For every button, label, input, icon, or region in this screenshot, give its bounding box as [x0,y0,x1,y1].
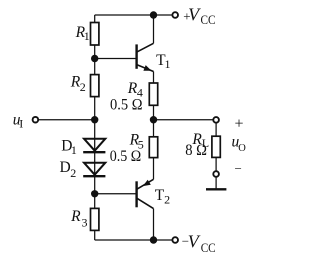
svg-text:1: 1 [84,29,90,43]
wire output node to output terminal [154,119,214,121]
svg-text:O: O [238,143,246,154]
svg-text:2: 2 [80,80,86,94]
node input [91,116,98,123]
svg-text:CC: CC [201,13,216,27]
wire top rail from R1 top to +VCC terminal [95,14,173,16]
wire RL bottom to output- terminal [215,157,217,171]
transistor T2 [137,179,154,208]
terminal output + [213,117,219,123]
wire T2 collector to bottom rail [153,209,155,240]
diode D1 [83,139,105,153]
resistor R4 [149,83,157,105]
resistor R2 [91,75,99,97]
wire R2 bottom through diodes D1 D2 to R3 top [94,97,96,209]
wire output+ terminal to RL top [215,122,217,136]
wire T1 emitter to R4 [153,72,155,84]
terminal output - [213,171,219,177]
node junction top rail [150,11,157,18]
svg-text:3: 3 [82,215,88,229]
wire node A to T1 base [95,58,136,60]
svg-text:1: 1 [165,57,171,71]
svg-text:1: 1 [71,143,77,157]
terminal uI [33,117,39,123]
terminal -VCC [172,237,178,243]
svg-text:2: 2 [70,166,76,180]
resistor R5 [149,137,157,158]
svg-text:0.5 Ω: 0.5 Ω [110,148,142,165]
terminal +VCC [172,12,178,18]
wire node B to T2 base [95,193,136,195]
svg-text:8 Ω: 8 Ω [185,142,207,159]
diode D2 [83,163,105,177]
svg-text:2: 2 [164,193,170,207]
wire R1 bottom to R2 top through node A [94,45,96,75]
resistor R1 [91,23,99,46]
svg-text:I: I [19,117,23,131]
wire T1 collector to top rail [153,15,155,43]
svg-text:CC: CC [201,241,216,255]
wire R5 bottom to T2 emitter [153,158,155,180]
svg-text:−: − [235,161,242,176]
arrow T1 emitter [143,65,151,71]
wire R4 bottom to R5 top through output node [153,105,155,137]
resistor R3 [91,208,99,230]
svg-text:0.5 Ω: 0.5 Ω [110,96,143,113]
wire R3 bottom to bottom rail [94,230,96,240]
node output [150,116,157,123]
svg-text:D: D [60,159,71,176]
arrow T2 emitter [143,180,151,186]
wire output- terminal to ground [215,176,217,189]
svg-text:R: R [70,208,81,225]
transistor T1 [137,43,154,71]
wire input terminal to input node [38,119,95,121]
node B [91,190,98,197]
node A [91,55,98,62]
wire R1 top lead [94,15,96,23]
wire bottom rail to -VCC terminal [95,239,173,241]
ground [206,188,226,190]
svg-text:+: + [235,115,244,132]
resistor RL [212,136,220,157]
node bottom rail [150,236,157,243]
